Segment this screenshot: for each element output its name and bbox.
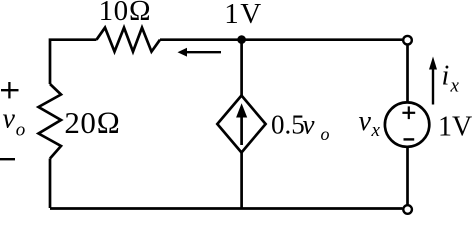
wire left-bottom segment <box>49 159 52 209</box>
wire top-middle segment <box>160 38 402 41</box>
svg-text:v: v <box>3 103 16 134</box>
svg-text:x: x <box>371 120 381 141</box>
node 1V junction dot <box>237 35 246 44</box>
svg-text:0.5: 0.5 <box>271 109 305 139</box>
svg-text:i: i <box>442 61 450 92</box>
svg-text:1V: 1V <box>438 112 472 143</box>
svg-text:x: x <box>450 76 460 97</box>
svg-text:v: v <box>359 106 372 137</box>
resistor R2 20ohm zigzag <box>39 84 62 159</box>
current arrow i_x up <box>429 57 437 105</box>
dependent source arrow up <box>236 103 247 145</box>
terminal top-right open circle <box>403 36 412 45</box>
wire right vertical top <box>406 45 409 102</box>
wire middle vertical top <box>240 40 243 96</box>
wire top-left segment <box>50 40 97 84</box>
wire bottom segment <box>50 207 402 210</box>
svg-text:20Ω: 20Ω <box>64 105 120 140</box>
voltage source V1 circle <box>385 102 429 146</box>
svg-text:o: o <box>321 124 330 144</box>
terminal bottom-right open circle <box>403 205 412 214</box>
label minus sign inside source <box>404 138 415 140</box>
label plus sign of v_o <box>1 82 19 98</box>
svg-text:1V: 1V <box>224 0 262 30</box>
wire middle vertical bottom <box>240 153 243 209</box>
wire right vertical bottom <box>406 148 409 205</box>
dependent current source diamond 0.5v_o <box>217 96 265 153</box>
current arrow pointing left <box>178 48 222 57</box>
label minus sign of v_o <box>0 158 15 160</box>
svg-text:v: v <box>303 109 315 139</box>
svg-text:o: o <box>16 120 26 141</box>
resistor R1 10ohm zigzag <box>97 28 161 52</box>
label plus sign inside source <box>402 106 415 119</box>
svg-text:10Ω: 10Ω <box>99 0 152 27</box>
